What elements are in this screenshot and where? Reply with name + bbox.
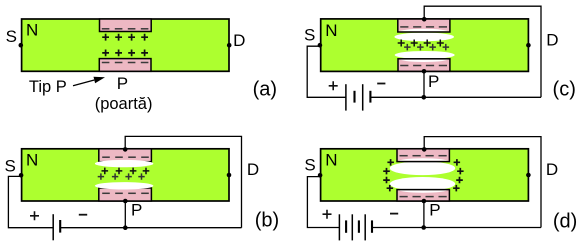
- panel (c) source wire: [307, 46, 346, 97]
- panel (b) drain terminal dot: [227, 173, 232, 178]
- panel (c) battery cell2 negative plate: [369, 91, 371, 103]
- panel (b) gate wire top: [125, 136, 241, 227]
- panel (d) gate wire top loop: [424, 137, 541, 228]
- svg-text:S: S: [6, 27, 17, 46]
- panel (b) battery minus sign: [79, 214, 87, 216]
- panel (a) drain terminal dot: [227, 43, 232, 48]
- panel (d) battery cell1 positive plate: [338, 214, 340, 240]
- panel (c) battery plus sign: [329, 81, 338, 90]
- panel (c) gate top junction dot: [422, 17, 427, 22]
- panel (c) bus junction dot: [422, 95, 427, 100]
- panel (d) battery cell2 positive plate: [351, 214, 353, 240]
- panel (d) positive charges right arc: [453, 159, 464, 191]
- panel (d) gate bottom dot: [422, 199, 427, 204]
- panel (c) bottom bus wire: [370, 96, 541, 98]
- panel (c) bottom P gate fill: [398, 59, 450, 72]
- panel (b) bus junction dot: [123, 225, 128, 230]
- panel (d) bottom gate ions (minus): [400, 196, 447, 198]
- svg-text:(d): (d): [553, 211, 577, 233]
- panel (c) channel positive charges lower row: [404, 44, 449, 51]
- panel (d) gate bottom connector: [423, 201, 425, 228]
- panel (c) N-channel bar: [321, 19, 529, 72]
- panel (d) bottom P gate fill: [397, 190, 449, 201]
- panel (d) lower depletion region in channel: [390, 177, 455, 191]
- panel (d) upper depletion region in channel: [390, 161, 455, 175]
- panel (d) bus junction dot: [421, 225, 426, 230]
- panel (d) positive charges left arc: [383, 159, 394, 191]
- panel (d) gate top junction dot: [422, 147, 427, 152]
- panel (c) battery cell1 negative plate: [353, 91, 355, 103]
- panel (a) top P gate region: [100, 19, 152, 32]
- panel (c) channel positive charges upper row: [398, 40, 444, 47]
- panel (d) battery minus sign: [390, 213, 398, 215]
- svg-text:D: D: [546, 160, 558, 179]
- panel (a) N-channel bar: [22, 19, 229, 71]
- panel (d) battery plus sign: [323, 210, 332, 219]
- panel (b) source terminal dot: [19, 173, 24, 178]
- panel (b) bottom gate ions (minus): [102, 192, 149, 194]
- panel (d) top P gate fill: [397, 149, 449, 162]
- svg-text:P: P: [117, 74, 128, 93]
- panel (a) source terminal dot: [19, 43, 24, 48]
- panel (d) top gate outline: [397, 149, 449, 162]
- panel (c) bottom gate ions (minus): [400, 65, 447, 67]
- panel (d) top gate ions (minus): [400, 155, 447, 157]
- panel (b) bottom P gate region: [99, 188, 152, 201]
- panel (c) battery cell2 positive plate: [362, 84, 364, 110]
- panel (c) drain terminal dot: [526, 43, 531, 48]
- svg-text:S: S: [304, 26, 315, 45]
- panel (c) gate bottom dot: [422, 69, 427, 74]
- panel (b) channel positive charges upper row: [102, 168, 150, 175]
- panel (b) source wire: [8, 176, 53, 227]
- svg-text:S: S: [5, 156, 16, 175]
- panel (b) upper depletion region: [95, 160, 153, 167]
- panel (a) donor ions row under top gate (plus): [102, 34, 148, 41]
- svg-text:P: P: [131, 201, 142, 220]
- panel (d) battery cell3 negative plate: [371, 220, 373, 232]
- panel (d) source terminal dot: [318, 173, 323, 178]
- panel (a) donor ions row over bottom gate (plus): [102, 50, 148, 57]
- svg-text:D: D: [546, 31, 558, 50]
- svg-text:(poartă): (poartă): [95, 95, 153, 113]
- panel (c) source terminal dot: [318, 43, 323, 48]
- svg-text:D: D: [233, 31, 245, 50]
- panel (a) bottom gate acceptor ions (minus): [102, 62, 149, 64]
- svg-text:(b): (b): [255, 209, 279, 231]
- panel (c) battery minus sign: [377, 83, 385, 85]
- panel (b) N-channel bar: [22, 149, 229, 201]
- arrow from Tip P to bottom gate: [73, 80, 94, 86]
- panel (a) top gate acceptor ions (minus): [102, 28, 149, 30]
- svg-text:(c): (c): [553, 78, 576, 100]
- panel (b) channel positive charges lower row: [98, 173, 145, 179]
- svg-text:(a): (a): [253, 79, 277, 101]
- panel (a) bottom P gate region: [99, 59, 151, 72]
- panel (c) top gate outline: [398, 19, 450, 32]
- panel (d) bottom gate outline: [397, 190, 449, 201]
- panel (b) battery negative plate: [59, 220, 61, 233]
- panel (c) gate wire top loop: [424, 6, 541, 97]
- panel (c) gate bottom connector: [423, 71, 425, 97]
- panel (c) top gate ions (minus): [400, 26, 447, 28]
- panel (c) battery cell1 positive plate: [345, 84, 347, 110]
- panel (b) gate bottom connector: [124, 201, 126, 228]
- panel (b) battery positive plate: [52, 214, 54, 240]
- svg-text:N: N: [325, 151, 337, 170]
- panel (c) bottom gate outline: [398, 59, 450, 72]
- svg-text:N: N: [26, 20, 38, 39]
- svg-text:N: N: [325, 21, 337, 40]
- panel (c) lower depletion region in channel: [395, 51, 455, 59]
- panel (d) battery cell2 negative plate: [358, 220, 360, 232]
- panel (b) top gate ions (minus): [102, 156, 149, 158]
- svg-text:P: P: [428, 72, 439, 91]
- panel (d) drain terminal dot: [526, 173, 531, 178]
- panel (b) top P gate region: [99, 149, 152, 162]
- svg-text:Tip P: Tip P: [29, 78, 67, 96]
- panel (b) lower depletion region: [95, 182, 153, 189]
- panel (d) battery cell3 positive plate: [364, 214, 366, 240]
- svg-text:N: N: [26, 151, 38, 170]
- panel (d) battery cell1 negative plate: [345, 220, 347, 232]
- panel (b) gate top junction dot: [123, 147, 128, 152]
- svg-text:D: D: [247, 160, 259, 179]
- panel (b) bottom bus wire: [60, 227, 241, 229]
- panel (d) N-channel bar: [321, 149, 529, 201]
- panel (d) bottom bus wire: [372, 227, 541, 229]
- panel (c) top P gate fill: [398, 19, 450, 32]
- panel (b) gate bottom dot: [123, 199, 128, 204]
- panel (d) source wire: [307, 177, 339, 228]
- panel (c) upper depletion region in channel: [394, 33, 454, 42]
- svg-text:P: P: [429, 201, 440, 220]
- svg-text:S: S: [304, 156, 315, 175]
- panel (b) battery plus sign: [30, 211, 39, 220]
